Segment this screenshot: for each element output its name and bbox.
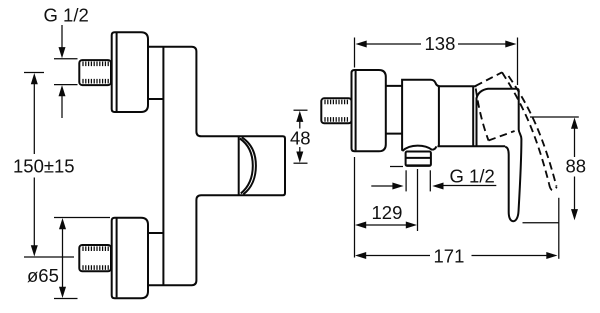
side view neck lines	[386, 86, 402, 134]
svg-text:171: 171	[434, 246, 465, 267]
dimension G 1/2 outlet left-pointing arrow with leader	[432, 183, 496, 190]
dimension G 1/2 top up arrow	[59, 85, 66, 118]
bottom escutcheon	[112, 218, 148, 299]
cylinder dome double arc	[240, 137, 256, 194]
dimension 138 right extension	[517, 38, 519, 86]
dimension 138 left extension	[354, 38, 356, 68]
handle raised position (dashed) head	[475, 72, 514, 140]
body column with middle cylinder (front view)	[148, 47, 285, 286]
handle head and lever (solid)	[477, 89, 522, 221]
outlet thread left tick	[405, 170, 407, 191]
dimension 88 top tick	[530, 116, 579, 118]
dimension 150±15 top tick	[24, 72, 44, 74]
dimension 48 bottom tick	[294, 162, 308, 164]
svg-text:129: 129	[372, 202, 403, 223]
dimension G 1/2 top tick upper	[54, 58, 78, 60]
side view escutcheon	[352, 70, 386, 151]
svg-text:ø65: ø65	[27, 265, 59, 286]
dimension 88 upper line with up arrow	[571, 118, 578, 158]
svg-text:88: 88	[566, 156, 587, 177]
svg-text:G 1/2: G 1/2	[450, 166, 495, 187]
dimension 88 bottom tick	[523, 222, 559, 224]
dimension 48 top tick	[294, 109, 308, 111]
dimension 129 line with arrows	[355, 222, 417, 229]
top inlet nipple (threaded)	[79, 60, 111, 85]
svg-text:48: 48	[290, 128, 311, 149]
dimension ø65 top tick	[54, 217, 110, 219]
outlet bottom reference tick	[390, 166, 403, 168]
dimension 129/171 shared left extension	[354, 157, 356, 258]
neck step bottom connection	[148, 232, 163, 234]
dimension G 1/2 outlet right-pointing arrow	[371, 183, 403, 190]
dimension G 1/2 top down arrow	[59, 25, 66, 58]
dimension 48 down arrow	[296, 147, 303, 163]
dimension 171 line with arrows	[355, 252, 558, 259]
side view valve body	[402, 80, 440, 151]
shower outlet nut	[406, 152, 431, 166]
cartridge ring separator	[438, 86, 440, 146]
svg-text:G 1/2: G 1/2	[44, 5, 89, 26]
dimension ø65 line with arrows	[59, 218, 66, 298]
dimension 150±15 line upper with up arrow	[31, 73, 38, 154]
dimension 150±15 line lower with down arrow	[31, 178, 38, 257]
svg-text:138: 138	[425, 33, 456, 54]
side view threaded nipple	[321, 98, 351, 123]
top escutcheon	[112, 32, 148, 112]
dimension 129 right extension	[417, 169, 419, 231]
neck step top connection	[148, 98, 163, 100]
dimension 171 right extension	[558, 198, 560, 259]
dimension 48 up arrow	[296, 111, 303, 129]
dimension G 1/2 top tick lower	[54, 84, 78, 86]
handle raised position (dashed) lever	[502, 72, 557, 190]
dimension ø65 bottom tick	[54, 298, 78, 300]
cylinder junction line	[238, 136, 240, 195]
bottom inlet nipple (threaded)	[79, 245, 111, 271]
cartridge ring	[438, 86, 506, 146]
svg-text:150±15: 150±15	[13, 156, 75, 177]
outlet thread right tick	[429, 170, 431, 191]
dimension 150±15 bottom tick	[24, 256, 74, 258]
dimension 138 line with arrows	[356, 41, 517, 48]
dimension 88 lower line with down arrow	[571, 177, 578, 221]
